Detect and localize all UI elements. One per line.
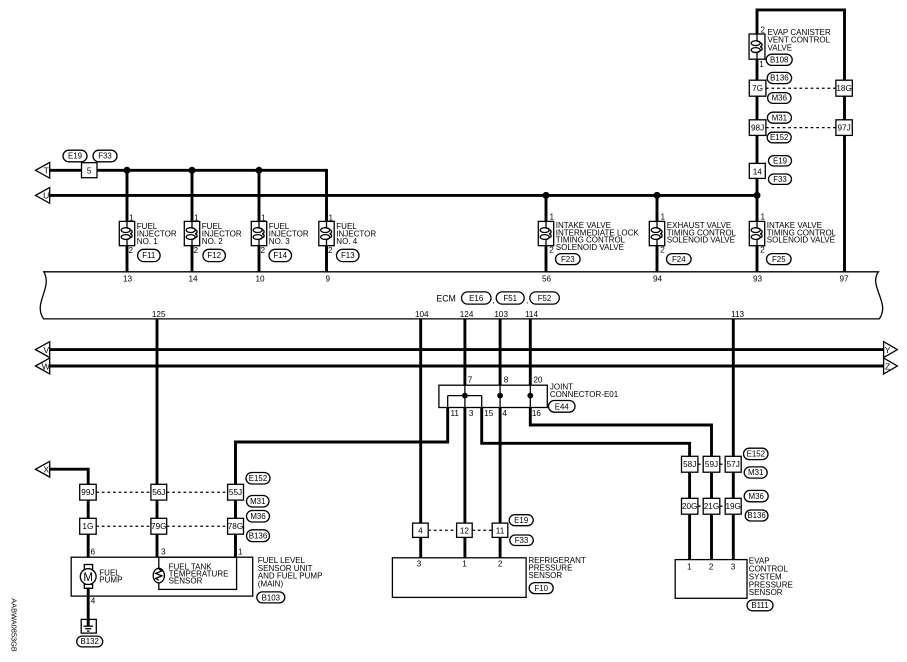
svg-text:94: 94 xyxy=(653,274,663,283)
svg-text:F33: F33 xyxy=(773,175,787,184)
svg-text:B111: B111 xyxy=(751,601,768,610)
svg-text:7: 7 xyxy=(468,376,473,385)
svg-text:13: 13 xyxy=(123,274,133,283)
svg-text:14: 14 xyxy=(753,167,763,176)
svg-text:B132: B132 xyxy=(80,637,98,646)
svg-text:4: 4 xyxy=(418,526,423,535)
svg-text:114: 114 xyxy=(525,310,538,319)
svg-text:B136: B136 xyxy=(249,531,268,540)
svg-text:AABWA0853GB: AABWA0853GB xyxy=(10,598,19,652)
svg-text:F11: F11 xyxy=(142,251,155,260)
svg-text:11: 11 xyxy=(450,409,459,418)
svg-text:F14: F14 xyxy=(273,251,287,260)
svg-text:1: 1 xyxy=(661,213,666,222)
svg-text:1: 1 xyxy=(238,548,243,557)
svg-text:SOLENOID VALVE: SOLENOID VALVE xyxy=(667,236,735,245)
svg-text:SENSOR: SENSOR xyxy=(749,588,783,597)
svg-text:1: 1 xyxy=(550,213,555,222)
svg-text:55J: 55J xyxy=(229,488,242,497)
svg-text:CONNECTOR-E01: CONNECTOR-E01 xyxy=(550,390,619,399)
svg-text:B136: B136 xyxy=(770,74,789,83)
svg-text:1: 1 xyxy=(759,60,764,69)
svg-text:7G: 7G xyxy=(752,84,763,93)
svg-text:113: 113 xyxy=(731,310,744,319)
svg-text:M36: M36 xyxy=(250,512,266,521)
svg-text:3: 3 xyxy=(469,409,474,418)
svg-text:2: 2 xyxy=(261,246,266,255)
svg-text:B108: B108 xyxy=(770,56,789,65)
svg-text:6: 6 xyxy=(91,548,96,557)
svg-text:M36: M36 xyxy=(772,94,788,103)
svg-text:SENSOR: SENSOR xyxy=(528,571,562,580)
svg-text:E152: E152 xyxy=(747,450,765,459)
svg-text:10: 10 xyxy=(255,274,265,283)
svg-text:59J: 59J xyxy=(705,460,718,469)
svg-text:125: 125 xyxy=(152,310,166,319)
svg-text:1: 1 xyxy=(261,214,266,223)
svg-text:1: 1 xyxy=(462,559,467,568)
svg-text:F33: F33 xyxy=(98,152,112,161)
svg-text:ECM: ECM xyxy=(436,294,456,304)
svg-text:M31: M31 xyxy=(772,113,787,122)
svg-text:98J: 98J xyxy=(751,124,764,133)
svg-text:PUMP: PUMP xyxy=(99,576,122,585)
svg-text:E16: E16 xyxy=(469,294,484,303)
svg-text:1: 1 xyxy=(129,214,134,223)
svg-text:M: M xyxy=(83,572,93,584)
svg-text:,: , xyxy=(526,296,528,305)
svg-text:14: 14 xyxy=(188,274,198,283)
svg-text:F23: F23 xyxy=(561,255,575,264)
svg-text:56: 56 xyxy=(542,274,552,283)
svg-text:97: 97 xyxy=(839,274,849,283)
svg-text:B103: B103 xyxy=(262,593,281,602)
svg-text:93: 93 xyxy=(753,274,763,283)
svg-text:124: 124 xyxy=(460,310,474,319)
svg-text:M36: M36 xyxy=(749,492,765,501)
svg-text:103: 103 xyxy=(494,310,508,319)
svg-text:E152: E152 xyxy=(770,133,788,142)
svg-text:15: 15 xyxy=(484,409,494,418)
svg-text:2: 2 xyxy=(328,246,333,255)
svg-text:E19: E19 xyxy=(514,516,529,525)
svg-text:2: 2 xyxy=(760,245,765,254)
svg-text:5: 5 xyxy=(87,167,92,176)
svg-text:1G: 1G xyxy=(82,522,93,531)
svg-text:E19: E19 xyxy=(68,152,83,161)
svg-text:NO. 4: NO. 4 xyxy=(336,237,357,246)
svg-text:E19: E19 xyxy=(773,157,788,166)
svg-text:8: 8 xyxy=(504,376,509,385)
svg-text:19G: 19G xyxy=(725,502,740,511)
svg-text:11: 11 xyxy=(496,526,505,535)
svg-text:56J: 56J xyxy=(152,488,165,497)
svg-text:104: 104 xyxy=(415,310,429,319)
svg-text:SOLENOID VALVE: SOLENOID VALVE xyxy=(767,236,835,245)
svg-text:1: 1 xyxy=(761,213,766,222)
svg-text:4: 4 xyxy=(502,409,507,418)
svg-text:NO. 1: NO. 1 xyxy=(137,237,158,246)
svg-text:E152: E152 xyxy=(249,474,267,483)
svg-text:12: 12 xyxy=(460,526,470,535)
svg-text:,: , xyxy=(492,296,494,305)
svg-text:F33: F33 xyxy=(515,536,529,545)
svg-text:4: 4 xyxy=(91,597,96,606)
svg-text:M31: M31 xyxy=(250,497,265,506)
svg-text:2: 2 xyxy=(498,559,503,568)
svg-text:T: T xyxy=(44,166,50,176)
svg-text:1: 1 xyxy=(329,214,334,223)
svg-text:3: 3 xyxy=(417,559,422,568)
svg-text:W: W xyxy=(42,361,51,371)
svg-text:2: 2 xyxy=(194,246,199,255)
svg-text:20G: 20G xyxy=(682,502,697,511)
svg-text:18G: 18G xyxy=(836,84,851,93)
svg-text:2: 2 xyxy=(549,245,554,254)
svg-text:(MAIN): (MAIN) xyxy=(258,579,284,588)
svg-text:1: 1 xyxy=(687,563,692,572)
svg-text:79G: 79G xyxy=(151,522,166,531)
svg-text:2: 2 xyxy=(760,26,765,35)
svg-text:F52: F52 xyxy=(538,294,552,303)
svg-text:16: 16 xyxy=(532,409,542,418)
svg-text:Z: Z xyxy=(885,361,890,371)
svg-text:F51: F51 xyxy=(503,294,517,303)
svg-text:1: 1 xyxy=(194,214,199,223)
svg-text:9: 9 xyxy=(326,274,331,283)
svg-text:F13: F13 xyxy=(341,251,355,260)
svg-text:2: 2 xyxy=(660,245,665,254)
svg-text:U: U xyxy=(43,191,49,201)
svg-text:20: 20 xyxy=(533,376,543,385)
svg-text:F24: F24 xyxy=(672,255,686,264)
svg-text:58J: 58J xyxy=(683,460,696,469)
svg-text:NO. 3: NO. 3 xyxy=(269,237,290,246)
svg-text:2: 2 xyxy=(129,246,134,255)
svg-text:NO. 2: NO. 2 xyxy=(202,237,223,246)
svg-text:E44: E44 xyxy=(555,402,570,411)
svg-text:F10: F10 xyxy=(534,584,548,593)
svg-text:V: V xyxy=(43,345,49,355)
svg-text:SENSOR: SENSOR xyxy=(169,576,203,585)
svg-text:F12: F12 xyxy=(207,251,221,260)
svg-text:X: X xyxy=(43,465,49,475)
svg-text:97J: 97J xyxy=(837,124,850,133)
svg-text:F25: F25 xyxy=(772,255,786,264)
svg-text:B136: B136 xyxy=(747,511,766,520)
svg-text:21G: 21G xyxy=(704,502,719,511)
svg-text:Y: Y xyxy=(885,345,891,355)
svg-text:SOLENOID VALVE: SOLENOID VALVE xyxy=(556,243,624,252)
svg-text:3: 3 xyxy=(731,563,736,572)
svg-text:78G: 78G xyxy=(228,522,243,531)
svg-text:57J: 57J xyxy=(727,460,740,469)
svg-text:3: 3 xyxy=(161,548,166,557)
svg-text:2: 2 xyxy=(709,563,714,572)
svg-text:VALVE: VALVE xyxy=(768,43,793,52)
svg-text:M31: M31 xyxy=(748,468,763,477)
svg-text:99J: 99J xyxy=(81,488,94,497)
